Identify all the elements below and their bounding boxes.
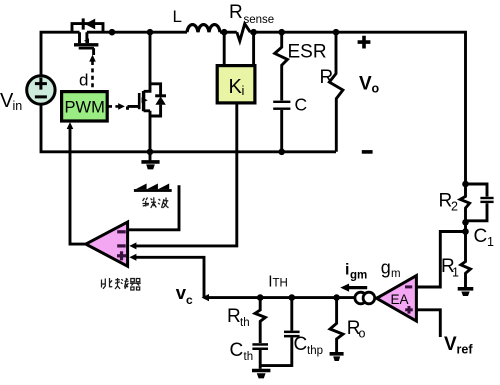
wire dashed gate drive d (PWM to Q1) xyxy=(89,55,96,92)
svg-text:th: th xyxy=(240,317,250,329)
svg-text:EA: EA xyxy=(391,292,409,307)
wire vc to comparator plus input xyxy=(129,254,204,298)
label ramp (xie bo) hand-drawn glyphs xyxy=(143,197,169,208)
wire EA minus input to R2/C1 junction xyxy=(416,232,465,288)
op-amp U2 error amplifier EA xyxy=(377,276,417,321)
block Ki current-sense gain xyxy=(217,32,255,103)
wire L to Rsense xyxy=(220,31,237,34)
label vc xyxy=(176,282,193,307)
svg-text:R: R xyxy=(229,2,243,23)
ground (below Cth) xyxy=(252,371,270,379)
body arrow Q2 xyxy=(142,97,148,103)
resistor Ro xyxy=(330,298,343,353)
svg-text:C: C xyxy=(230,340,244,361)
svg-text:sense: sense xyxy=(244,14,275,26)
svg-text:R: R xyxy=(320,67,334,88)
label C1 xyxy=(474,226,495,249)
junction dot divider tap xyxy=(462,228,469,235)
svg-text:ref: ref xyxy=(457,343,474,357)
capacitor C xyxy=(273,101,290,110)
ground (below R1) xyxy=(458,289,474,296)
svg-text:thp: thp xyxy=(307,345,323,357)
junction dot Ro branch xyxy=(333,294,340,301)
comparator minus mark 1 xyxy=(117,230,126,233)
ground (below Ro) xyxy=(330,354,344,361)
resistor R2 xyxy=(460,184,469,222)
wire Ki output to comparator minus input 2 xyxy=(129,103,237,249)
label Vin xyxy=(0,90,22,113)
svg-text:L: L xyxy=(173,7,182,26)
EA minus mark xyxy=(405,285,412,288)
label plus terminal xyxy=(358,36,371,49)
ground (below Q2) xyxy=(141,152,159,170)
svg-text:ESR: ESR xyxy=(288,42,327,63)
label Vref xyxy=(444,334,473,357)
transistor Q2 low-side NMOS xyxy=(128,32,151,152)
label comparator (bi jiao qi) hand-drawn glyphs xyxy=(102,278,141,290)
label Vo xyxy=(359,73,380,95)
inductor L xyxy=(187,25,220,33)
label Ro xyxy=(347,318,366,341)
svg-text:i: i xyxy=(345,262,349,279)
comparator plus mark xyxy=(117,251,126,260)
svg-text:K: K xyxy=(229,76,243,98)
svg-text:2: 2 xyxy=(451,200,458,214)
capacitor Cthp xyxy=(290,298,293,331)
label R1 xyxy=(441,256,459,280)
svg-text:TH: TH xyxy=(273,277,288,289)
transistor Q1 high-side PMOS body xyxy=(72,24,103,55)
capacitor C1 (parallel loop) xyxy=(466,184,494,221)
wire bottom rail xyxy=(41,106,336,152)
body arrow Q1 xyxy=(84,38,89,43)
resistor R load xyxy=(333,29,340,36)
junction node dot top rail A xyxy=(109,29,116,36)
wire EA plus input to Vref xyxy=(416,310,440,337)
label Rth xyxy=(227,306,250,329)
svg-text:V: V xyxy=(359,73,372,94)
svg-text:i: i xyxy=(242,83,245,98)
wire ramp to comparator minus input xyxy=(129,185,180,230)
op-amp U1 comparator xyxy=(86,222,128,266)
svg-text:g: g xyxy=(381,258,391,278)
junction dot switch-node bottom / ground xyxy=(147,149,154,156)
resistor R1 xyxy=(461,222,471,287)
wire current source to EA apex xyxy=(374,297,377,300)
label gm xyxy=(381,258,401,281)
wire dashed gate drive (PWM to Q2) xyxy=(108,103,125,110)
svg-text:C: C xyxy=(295,95,308,115)
junction node dot top rail B (switch node) xyxy=(147,29,154,36)
comparator minus mark 2 xyxy=(117,244,126,247)
label ITH xyxy=(268,273,288,290)
svg-text:gm: gm xyxy=(350,270,367,282)
label igm with arrow xyxy=(340,262,367,292)
svg-text:m: m xyxy=(391,268,401,280)
sawtooth ramp symbol xyxy=(134,184,172,192)
svg-text:R: R xyxy=(227,306,241,327)
label Rsense xyxy=(229,2,274,26)
voltage source Vin xyxy=(27,76,55,104)
svg-text:d: d xyxy=(79,71,88,90)
label R2 xyxy=(439,191,459,214)
capacitor Cth xyxy=(252,343,268,350)
svg-text:PWM: PWM xyxy=(65,99,105,117)
svg-text:o: o xyxy=(372,81,380,95)
current source igm symbol xyxy=(355,292,375,304)
junction dot R2 bottom xyxy=(462,219,469,226)
diode D1 (Q1 body diode) xyxy=(83,18,95,29)
svg-text:in: in xyxy=(13,99,23,113)
resistor ESR xyxy=(275,32,288,100)
junction dot ESR bottom xyxy=(278,149,285,156)
resistor Rsense xyxy=(237,24,251,41)
label minus terminal xyxy=(362,150,373,154)
junction dot Rth branch xyxy=(257,294,264,301)
wire comparator output to PWM xyxy=(67,122,86,244)
svg-text:1: 1 xyxy=(452,266,459,280)
node dot Rsense left xyxy=(221,29,228,36)
svg-text:th: th xyxy=(244,351,254,363)
block PWM xyxy=(62,92,108,121)
svg-text:1: 1 xyxy=(487,235,494,249)
wire ITH rail xyxy=(202,294,356,301)
junction dot R2 top xyxy=(462,181,469,188)
wire top rail left (Vin top to PMOS source) xyxy=(41,32,80,74)
wire top rail right (Rsense to feedback corner, drop to R2) xyxy=(250,32,465,184)
svg-text:o: o xyxy=(359,327,366,341)
capacitor branch ESR top dot xyxy=(278,29,285,36)
EA plus mark xyxy=(405,306,413,314)
svg-text:C: C xyxy=(474,226,488,247)
svg-text:C: C xyxy=(294,334,308,355)
svg-text:V: V xyxy=(444,334,457,355)
label Cthp xyxy=(294,334,324,357)
diode D2 (Q2 body diode) xyxy=(150,84,166,116)
label Cth xyxy=(230,340,254,363)
junction dot Cthp branch xyxy=(289,294,296,301)
node dot Rsense right xyxy=(250,29,257,36)
svg-text:c: c xyxy=(186,293,193,307)
resistor Rth xyxy=(255,298,265,343)
wire top rail mid (PMOS drain to inductor) xyxy=(87,31,187,34)
